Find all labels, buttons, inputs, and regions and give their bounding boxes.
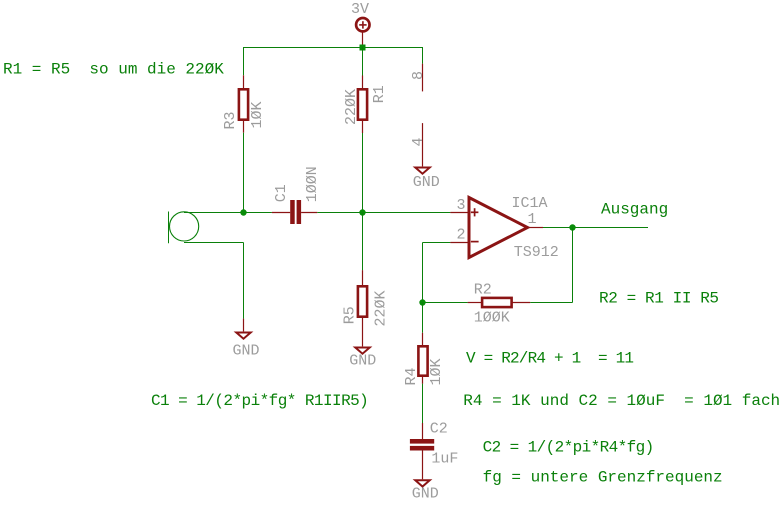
- wire feedback horizontal right: [530, 302, 572, 304]
- op-amp U1 triangle: [469, 198, 528, 258]
- wire mic bottom vertical: [243, 243, 245, 319]
- ground stub mic: [243, 319, 245, 332]
- ground symbol mic: [236, 333, 250, 339]
- pin 8 stub: [422, 64, 424, 92]
- svg-text:8: 8: [410, 71, 427, 80]
- wire R2 left: [423, 302, 468, 304]
- svg-text:fg = untere Grenzfrequenz: fg = untere Grenzfrequenz: [483, 469, 723, 487]
- svg-text:22ØK: 22ØK: [373, 290, 390, 326]
- svg-text:1uF: 1uF: [431, 451, 458, 468]
- svg-text:C1 = 1/(2*pi*fg* R1IIR5): C1 = 1/(2*pi*fg* R1IIR5): [151, 392, 368, 410]
- junction node inverting: [419, 299, 425, 305]
- svg-text:2: 2: [457, 227, 466, 244]
- ground symbol C2: [415, 480, 429, 486]
- junction node mic: [240, 209, 246, 215]
- capacitor C1: [272, 200, 317, 224]
- resistor R5: [358, 270, 367, 346]
- svg-text:IC1A: IC1A: [512, 195, 548, 212]
- wire pin2 horizontal: [423, 242, 451, 244]
- pin 4 stub: [422, 123, 424, 166]
- svg-text:R1: R1: [371, 85, 388, 103]
- svg-text:GND: GND: [349, 352, 376, 369]
- svg-text:GND: GND: [412, 486, 439, 503]
- capacitor C2: [410, 423, 434, 479]
- wire output: [543, 227, 648, 229]
- ground symbol pin4: [415, 168, 429, 174]
- svg-text:1ØK: 1ØK: [428, 358, 445, 385]
- op-amp minus sign: [471, 241, 479, 243]
- wire R5 column top: [362, 213, 364, 271]
- svg-text:22ØK: 22ØK: [343, 89, 360, 125]
- junction supply node (square): [360, 45, 366, 51]
- svg-text:1: 1: [528, 211, 537, 228]
- svg-text:1ØØN: 1ØØN: [304, 166, 321, 202]
- junction node R1R5: [359, 209, 365, 215]
- wire R3 column top: [243, 47, 245, 75]
- wire top horizontal: [243, 47, 423, 49]
- wire mic top to junction: [184, 212, 272, 214]
- svg-text:R4: R4: [403, 367, 420, 385]
- microphone MIC1: [169, 212, 199, 244]
- wire junction to R4: [422, 303, 424, 333]
- svg-text:Ausgang: Ausgang: [601, 201, 668, 219]
- resistor R4: [418, 333, 427, 384]
- pin 3 stub: [450, 212, 470, 214]
- svg-text:GND: GND: [413, 174, 440, 191]
- pin 1 stub: [528, 227, 544, 229]
- junction node output: [569, 224, 575, 230]
- pin 2 stub: [450, 242, 470, 244]
- svg-text:R2 = R1 II R5: R2 = R1 II R5: [599, 290, 719, 308]
- svg-text:C2 = 1/(2*pi*R4*fg): C2 = 1/(2*pi*R4*fg): [483, 439, 654, 457]
- resistor R2: [468, 298, 531, 307]
- wire mic bottom horizontal: [184, 242, 244, 244]
- wire R3 column bottom: [243, 133, 245, 213]
- svg-text:1ØK: 1ØK: [249, 101, 266, 128]
- svg-text:3: 3: [457, 197, 466, 214]
- wire feedback vertical: [572, 228, 574, 303]
- op-amp plus sign: [471, 208, 479, 216]
- wire C1 to opamp: [317, 212, 450, 214]
- wire R4 to C2: [422, 384, 424, 423]
- svg-text:1ØØK: 1ØØK: [474, 310, 510, 327]
- wire pin8 column green: [422, 47, 424, 64]
- ground symbol R5: [355, 348, 369, 354]
- wire R1 column top: [362, 47, 364, 76]
- supply +3V symbol: [356, 18, 369, 45]
- svg-text:R1 = R5 so um die 22ØK: R1 = R5 so um die 22ØK: [3, 61, 224, 79]
- svg-text:C2: C2: [430, 421, 448, 438]
- svg-text:R2: R2: [474, 281, 492, 298]
- svg-text:3V: 3V: [351, 1, 369, 18]
- resistor R1: [358, 76, 367, 134]
- svg-text:V = R2/R4 + 1 = 11: V = R2/R4 + 1 = 11: [466, 350, 633, 368]
- resistor R3: [239, 75, 248, 132]
- svg-text:R4 = 1K und C2 = 1ØuF = 1Ø1 f: R4 = 1K und C2 = 1ØuF = 1Ø1 fach: [463, 392, 780, 410]
- wire pin2 vertical: [422, 243, 424, 303]
- svg-text:TS912: TS912: [514, 244, 559, 261]
- wire R1 column bottom: [362, 133, 364, 213]
- svg-text:R5: R5: [342, 306, 359, 324]
- svg-text:R3: R3: [222, 111, 239, 129]
- svg-text:C1: C1: [273, 184, 290, 202]
- svg-text:4: 4: [410, 137, 427, 146]
- svg-text:GND: GND: [233, 343, 260, 360]
